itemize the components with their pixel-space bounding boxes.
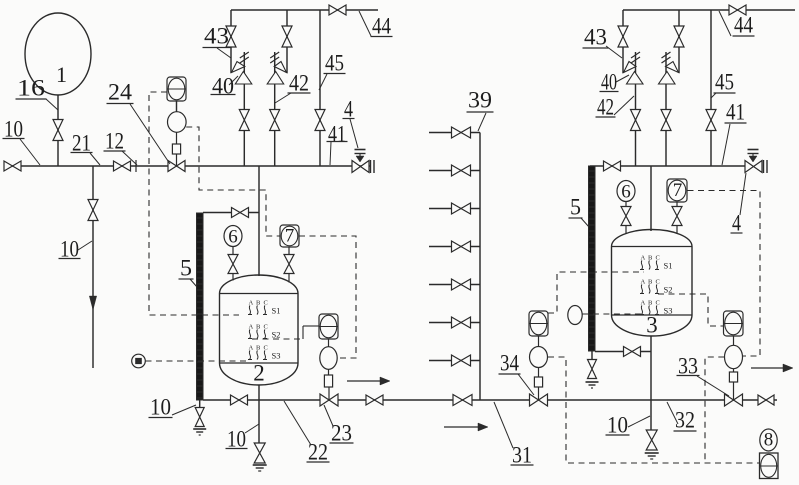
svg-text:10: 10 [227, 427, 246, 452]
signal wire: pump 34 to instrument 8 (dashed box) [548, 357, 759, 463]
svg-text:8: 8 [764, 429, 774, 450]
signal wire: transmitter 24 to vessel S1 [149, 92, 239, 315]
signal wire: right element to vessel S3 [582, 313, 641, 315]
hose break on riser 1 [240, 52, 249, 63]
svg-text:22: 22 [308, 440, 328, 465]
vessel 3 top manifold line (y=166) [590, 165, 745, 167]
shutoff valve on right riser 1 [631, 110, 641, 131]
center manifold vertical line [479, 133, 481, 401]
label 40 right [600, 70, 630, 95]
sensor bundle S1 (vessel 3) [640, 255, 672, 271]
wire box to pump (33 loop) [733, 336, 735, 346]
vessel 3 bottom outlet pipe [650, 336, 652, 430]
label 40 left [211, 74, 239, 99]
riser 2 lower pipe (right) [665, 52, 667, 166]
feed pipe into vessel 3 [650, 166, 652, 231]
hose break on right riser 2 [662, 52, 671, 63]
label 33 [677, 354, 730, 397]
svg-text:44: 44 [734, 13, 753, 38]
svg-text:6: 6 [621, 181, 631, 202]
positioner square (34 loop) [534, 368, 542, 388]
svg-text:21: 21 [72, 131, 91, 156]
svg-text:10: 10 [607, 413, 628, 438]
svg-text:S2: S2 [664, 285, 673, 295]
pump/actuator circle of loop 24 [168, 112, 187, 133]
wire from tank 1 to main line [57, 95, 59, 166]
signal wire: pump 33 to dashed box bottom [705, 357, 724, 463]
riser 1 lower pipe (right) [635, 52, 637, 166]
svg-text:7: 7 [673, 180, 683, 201]
wire branch down at x=93 [92, 166, 94, 368]
svg-text:C: C [264, 345, 268, 352]
label 34 [499, 351, 535, 396]
svg-text:4: 4 [344, 97, 353, 122]
label 44 left [359, 11, 393, 39]
riser 2 lower pipe (label 42) [274, 52, 276, 166]
svg-text:7: 7 [285, 225, 295, 246]
end flange at left valve 4 [371, 160, 375, 173]
valve on down branch [88, 200, 98, 221]
manifold branch 5 valve [452, 279, 471, 290]
label 10 vessel-3 drain [606, 413, 651, 438]
svg-text:3: 3 [646, 313, 658, 338]
valve 44 (left header) [329, 5, 346, 15]
label 43 right [583, 25, 623, 59]
riser 1 lower pipe [243, 52, 245, 166]
svg-text:42: 42 [289, 71, 309, 96]
manifold header line (left, y=10) [231, 9, 378, 11]
label 43 left [203, 24, 232, 59]
svg-text:24: 24 [108, 80, 133, 105]
svg-text:39: 39 [468, 88, 492, 113]
angle valve 40 on riser 1 [232, 62, 252, 85]
bottom product line (y=400) [203, 399, 777, 401]
shutoff valve on right riser 2 [661, 110, 671, 131]
svg-text:B: B [648, 255, 653, 262]
vessel 2 bottom outlet pipe [258, 385, 260, 443]
signal wire: instrument 7R to pump 33 [688, 191, 761, 357]
positioner square (33 loop) [729, 369, 737, 382]
instrument 8 circle [760, 429, 777, 451]
signal wire: transmitter 34 to vessel-3 S1 [548, 272, 644, 313]
svg-text:10: 10 [4, 117, 23, 142]
ground symbol under heater drain [193, 429, 206, 435]
valve on tank-1 line (label 16) [53, 120, 63, 141]
label 4 left [343, 97, 359, 149]
electric heater column 5 (right) [589, 166, 596, 351]
label 22 [284, 401, 330, 465]
valve under instrument 6 [228, 247, 238, 281]
svg-text:45: 45 [325, 51, 344, 76]
svg-text:S3: S3 [272, 351, 281, 361]
label 10 heater drain [149, 395, 197, 420]
manifold branch 7 valve [452, 355, 471, 366]
instrument transmitter 24 (square) [167, 77, 186, 101]
valve 10 at far left end [4, 161, 21, 171]
valve 43 on right riser 1 [618, 26, 628, 47]
pump circle (23 loop) [320, 347, 337, 370]
heater-to-outlet pipe (right, y=351) [595, 351, 651, 353]
svg-text:C: C [264, 324, 268, 331]
sensor bundle S3 (vessel 2) [248, 345, 280, 361]
recorder box under 8 [760, 453, 779, 479]
pump circle (33 loop) [725, 345, 743, 368]
valve on riser 2 [282, 26, 292, 47]
flange tick on main line [135, 160, 137, 172]
sensor bundle S1 (vessel 2) [248, 300, 280, 316]
svg-text:32: 32 [675, 408, 695, 433]
label 45 right [711, 70, 736, 99]
svg-text:A: A [249, 345, 254, 352]
vessel 3 drain valve [646, 430, 657, 450]
svg-text:43: 43 [584, 25, 607, 50]
svg-text:16: 16 [17, 76, 45, 101]
pump circle (34 loop) [530, 347, 548, 368]
ground under right heater drain [586, 382, 599, 388]
angle valve on riser 2 [267, 62, 286, 85]
signal wire: S2 to transmitter of 23 [252, 326, 319, 339]
hand control valve 4 (left) with actuator [352, 150, 369, 173]
temperature element (left small circle) [132, 354, 146, 368]
svg-text:41: 41 [726, 100, 745, 125]
svg-text:23: 23 [331, 421, 352, 446]
main feed line (left, y=166) [4, 165, 370, 167]
valve 22 on bottom line [231, 395, 248, 405]
svg-text:S2: S2 [272, 330, 281, 340]
svg-text:S3: S3 [664, 306, 673, 316]
flow arrow after valve 33 [751, 364, 793, 372]
label 10 far left [3, 117, 41, 166]
svg-text:A: A [641, 255, 646, 262]
valve on heater-to-feed pipe [232, 208, 249, 218]
label 42 left [275, 71, 311, 104]
label 5 left [179, 256, 198, 288]
svg-text:B: B [256, 300, 261, 307]
manifold header line (right, y=10) [623, 9, 795, 11]
svg-text:A: A [249, 324, 254, 331]
label 5 right [569, 195, 590, 228]
valve 12 on main line [114, 161, 131, 171]
manifold branch 5 wire [429, 284, 480, 286]
svg-text:1: 1 [56, 62, 67, 87]
riser 3 pipe (right, label 45) [710, 10, 712, 166]
manifold branch 3 valve [452, 203, 471, 214]
svg-text:B: B [256, 324, 261, 331]
heater drain pipe [199, 400, 201, 407]
positioner square of loop 24 [172, 132, 180, 154]
positioner square (23 loop) [324, 369, 332, 387]
manifold branch 3 wire [429, 208, 480, 210]
flow arrow on bottom line (center) [444, 423, 488, 431]
valve 32-line end valve [758, 395, 774, 405]
shutoff valve on right riser 3 [706, 110, 716, 131]
svg-text:B: B [648, 300, 653, 307]
right heater drain valve [588, 360, 597, 379]
valve 31 on bottom line at manifold [453, 395, 472, 406]
label 10 vessel-2 drain [226, 424, 260, 452]
label 42 right [596, 95, 635, 120]
ground under vessel 3 drain [645, 453, 659, 459]
svg-text:A: A [641, 279, 646, 286]
shutoff valve on riser 1 lower [239, 110, 249, 131]
svg-text:B: B [256, 345, 261, 352]
svg-text:S1: S1 [272, 306, 281, 316]
sensor bundle S3 (vessel 3) [640, 300, 672, 316]
wire transmitter-24 to pump [176, 101, 178, 112]
signal wire: element to vessel S3 [146, 360, 251, 362]
signal wire: vessel-3 S2 to transmitter 33 [658, 294, 724, 326]
svg-text:5: 5 [180, 256, 192, 281]
shutoff valve on riser 3 [315, 110, 325, 131]
manifold branch 4 wire [429, 246, 480, 248]
manifold branch 6 wire [429, 322, 480, 324]
angle valve on right riser 2 [659, 62, 679, 85]
valve under right instrument 7 [672, 202, 682, 234]
svg-text:C: C [656, 300, 660, 307]
valve on right heater-to-outlet pipe [624, 347, 641, 357]
riser 1 upper pipe [230, 10, 232, 73]
label 32 [667, 402, 697, 433]
valve under instrument 7 [284, 247, 294, 283]
riser 2 upper pipe [286, 10, 288, 73]
svg-text:33: 33 [678, 354, 698, 379]
heater drain valve [195, 408, 204, 427]
end flange at right valve 4 [764, 160, 768, 173]
label 21 [71, 131, 101, 166]
svg-text:6: 6 [228, 226, 238, 247]
instrument 6 (right circle) [617, 181, 635, 203]
vessel 2 shell [220, 275, 299, 386]
valve on vessel-3 manifold left [604, 161, 621, 171]
svg-text:34: 34 [500, 351, 519, 376]
label 41 left [327, 122, 348, 166]
signal wire: instrument 7 to pump of 23 [299, 236, 356, 358]
label 44 right [719, 11, 755, 38]
hose break on right riser 1 [631, 52, 640, 63]
label 31 [494, 402, 534, 468]
hand control valve 4 (right) with actuator [745, 150, 762, 173]
valve 44 (right header) [729, 5, 746, 15]
label 4 right [731, 173, 747, 236]
riser 3 pipe (label 45) [319, 10, 321, 166]
label 39 [467, 88, 494, 132]
svg-text:45: 45 [715, 70, 734, 95]
flow arrow after valve 23 [347, 377, 390, 385]
control valve 23 [320, 387, 338, 406]
loop of valve 23: transmitter square [319, 314, 338, 339]
label 23 [324, 405, 354, 446]
label 12 [104, 129, 138, 166]
manifold branch 4 valve [452, 241, 471, 252]
instrument 7 (right square) [667, 179, 687, 202]
svg-text:42: 42 [597, 95, 614, 120]
wire box to pump (34 loop) [538, 336, 540, 347]
ground under vessel 2 drain [253, 465, 267, 471]
manifold branch 2 valve [452, 165, 471, 176]
control valve 34 [530, 387, 548, 406]
vessel 2 drain valve [254, 443, 265, 463]
electric heater column 5 (left) [197, 213, 204, 400]
svg-text:12: 12 [105, 129, 124, 154]
svg-text:S1: S1 [664, 261, 673, 271]
control valve of loop 24 on main line [168, 154, 185, 172]
control valve 33 [725, 382, 743, 406]
feed pipe into vessel 2 [258, 166, 260, 276]
svg-text:5: 5 [570, 195, 581, 220]
svg-text:B: B [648, 279, 653, 286]
heater-to-feed pipe (y=212) [203, 212, 259, 214]
svg-text:C: C [656, 255, 660, 262]
flow arrowhead on down branch [89, 296, 96, 310]
sensor bundle S2 (vessel 3) [640, 279, 672, 295]
manifold branch 2 wire [429, 170, 480, 172]
manifold branch 1 valve [452, 127, 471, 138]
shutoff valve on riser 2 lower [270, 110, 280, 131]
manifold branch 6 valve [452, 317, 471, 328]
svg-text:A: A [249, 300, 254, 307]
instrument 6 (left circle) [224, 226, 242, 248]
manifold branch 1 wire [429, 132, 480, 134]
manifold branch 7 wire [429, 360, 480, 362]
riser 1 upper pipe (right) [622, 10, 624, 73]
wire box to pump (23 loop) [328, 339, 330, 347]
hose break on riser 2 [270, 52, 279, 63]
riser 2 upper pipe (right) [678, 10, 680, 73]
svg-text:2: 2 [253, 361, 265, 386]
angle valve 40 (right) [624, 62, 644, 85]
right heater drain pipe [591, 351, 593, 359]
svg-text:10: 10 [150, 395, 171, 420]
tank 1 (balloon vessel) [25, 13, 91, 95]
signal wire: pump 24 to instrument 7 [186, 127, 280, 236]
svg-text:C: C [656, 279, 660, 286]
vessel 3 shell [612, 230, 693, 338]
instrument 7 (left square) [280, 225, 299, 247]
valve on right riser 2 [674, 26, 684, 47]
svg-text:44: 44 [372, 14, 391, 39]
valve under right instrument 6 [621, 202, 631, 235]
svg-text:A: A [641, 300, 646, 307]
temperature element (right small circle) [568, 306, 582, 325]
loop of valve 34: transmitter square [529, 311, 548, 336]
svg-text:C: C [264, 300, 268, 307]
svg-text:10: 10 [60, 237, 79, 262]
label 24 [107, 80, 171, 165]
svg-text:40: 40 [601, 70, 617, 95]
svg-text:31: 31 [512, 443, 532, 468]
valve 43 on riser 1 [226, 26, 236, 47]
loop of valve 33: transmitter square [724, 311, 744, 336]
valve after 23 on bottom line [366, 395, 383, 405]
label 41 right [722, 100, 747, 166]
label 16 [16, 76, 59, 111]
label 45 left [319, 51, 346, 91]
sensor bundle S2 (vessel 2) [248, 324, 280, 340]
svg-text:43: 43 [204, 24, 229, 49]
label 10 mid-left [59, 237, 93, 262]
